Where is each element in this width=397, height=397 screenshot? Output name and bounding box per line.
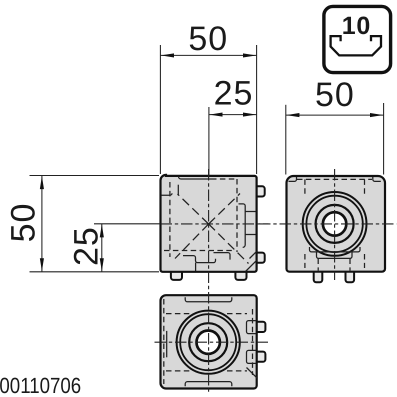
hidden left vertical (169, 182, 171, 257)
diagonal BL-center (175, 224, 209, 259)
right view body (287, 176, 386, 272)
right inner step horizontal 1 (245, 211, 256, 213)
diagonal BR-center (209, 224, 249, 264)
arrow 25-left down (100, 258, 104, 271)
chord step 1 (310, 247, 361, 252)
bottom view hidden lines (164, 299, 253, 384)
ext line top-left vertical (159, 45, 161, 174)
front view centerline vertical (208, 169, 210, 394)
cap seam top notch (179, 177, 212, 180)
tab bottom-right of front view (235, 266, 246, 280)
cap seam left vertical (166, 331, 168, 357)
bottom view body (161, 295, 257, 388)
dim line 50 top (160, 54, 256, 56)
front view centerline horizontal (161, 223, 269, 225)
second circle (306, 196, 362, 252)
bore circle (white) (323, 212, 346, 235)
svg-text:50: 50 (188, 20, 228, 58)
tab right-top of front view (251, 186, 265, 196)
arrow 50-top left (161, 53, 174, 57)
hidden right vertical (236, 179, 238, 252)
svg-text:50: 50 (315, 76, 355, 114)
diagonal TL-center (178, 194, 209, 224)
hidden tab guide right (349, 259, 351, 271)
dim line 25 top (209, 114, 257, 116)
icon frame (324, 6, 391, 72)
hidden horizontal bottom-right (227, 370, 247, 372)
svg-text:25: 25 (214, 74, 254, 112)
bottom view centerline horizontal (155, 341, 269, 343)
bottom view circles (177, 311, 240, 374)
hidden horizontal bottom-left (166, 370, 190, 372)
svg-text:10: 10 (342, 12, 371, 40)
hidden tab guide left (317, 259, 319, 271)
arrow 50-top right (243, 53, 256, 57)
front view hidden inset lines (dashed) (164, 179, 237, 257)
bottom view solid contours (167, 297, 258, 386)
svg-text:50: 50 (4, 203, 42, 243)
right view circles (303, 192, 367, 256)
hidden vertical left lower (304, 254, 306, 268)
tab bottom-left of front view (171, 186, 265, 280)
dim line 25 left (101, 224, 103, 272)
ext line top-right vertical (256, 45, 258, 174)
right inner step vertical (239, 204, 246, 248)
chord step 2 (317, 252, 353, 258)
icon groove profile (331, 36, 381, 55)
ext line left-mid horizontal (94, 223, 160, 225)
cap seam bottom notch (185, 382, 232, 387)
hidden vertical right upper (364, 179, 366, 194)
right view centerline horizontal (259, 223, 397, 225)
hidden horizontal top-right (227, 313, 247, 315)
svg-text:25: 25 (67, 226, 105, 266)
third circle (316, 205, 354, 243)
hidden vertical right lower (364, 254, 366, 268)
hidden top horizontal (297, 178, 372, 180)
bottom inner step 2 (183, 256, 216, 263)
dim line 50 right view (286, 114, 384, 116)
tab right-bottom of bottom view (250, 352, 265, 362)
ext line right-view-right vertical (383, 103, 385, 175)
bottom step vertical at tab (195, 263, 197, 271)
corner chamfer diagonal BR (246, 261, 257, 272)
tab bottom-right of right view (346, 266, 355, 282)
front view body (161, 175, 257, 272)
hidden horizontal top-left (166, 313, 190, 315)
arrow 50-right-view right (370, 113, 383, 117)
right step around tab 1 (247, 321, 257, 334)
tab bottom-left of right view (314, 266, 354, 282)
tab right-top of bottom view (250, 322, 265, 362)
hidden top horizontal (211, 178, 237, 180)
top-left cap notch (289, 177, 297, 181)
corner chamfer diagonal BR (247, 368, 258, 379)
outer circle (177, 311, 240, 374)
chamfer diagonal near right tab2 (250, 252, 257, 259)
arrow 25-left up (100, 224, 104, 237)
hidden vertical left upper (304, 179, 306, 194)
right step around tab 2 (247, 350, 257, 363)
tab right-bottom of front view (251, 253, 265, 263)
hidden vertical near left border (163, 299, 165, 384)
arrow 50-right-view left (286, 113, 299, 117)
arrow 25-top left (209, 113, 222, 117)
second circle (180, 314, 236, 370)
dim line 50 left (41, 176, 43, 272)
outer circle r32 (303, 192, 367, 256)
front view diagonals (X, dashed) (175, 194, 249, 264)
ext line left-bottom horizontal (30, 271, 160, 273)
arrow 25-top right (243, 113, 256, 117)
hidden bottom horizontal (164, 250, 233, 252)
diagonal TR-center (209, 194, 240, 225)
front view solid inner contours (162, 177, 257, 272)
svg-text:00110706: 00110706 (0, 373, 81, 397)
arrow 50-left up (40, 176, 44, 189)
ext line top-center vertical (208, 107, 210, 176)
bottom inner step 1 (214, 253, 231, 260)
right view centerline vertical (334, 169, 336, 280)
right view hidden lines (297, 179, 372, 270)
cap seam top notch (185, 297, 232, 302)
right inner step horizontal 2 (245, 234, 256, 236)
cap seam left horizontal (162, 193, 173, 195)
right view solid steps below circle (289, 177, 381, 258)
top-right cap notch (373, 177, 381, 181)
ext line left-top horizontal (30, 175, 160, 177)
ext line right-view-left vertical (285, 105, 287, 175)
cap seam left vertical (177, 185, 179, 196)
hidden vertical right (252, 309, 254, 375)
bore circle (white) (197, 331, 220, 354)
third circle (189, 323, 227, 361)
arrow 50-left down (40, 258, 44, 271)
